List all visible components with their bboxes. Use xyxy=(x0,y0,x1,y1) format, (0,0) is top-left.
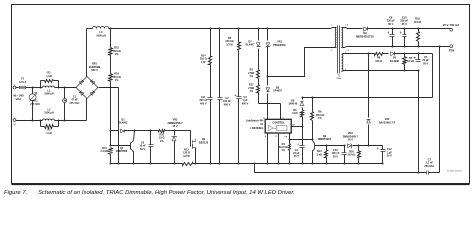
node rail-D6 xyxy=(302,97,304,99)
node VR2 at rail xyxy=(174,163,176,165)
wire detect to Q2 gate xyxy=(175,130,191,132)
varistor RV1 275 VAC xyxy=(32,88,34,121)
transistor Q3 MMBT3904 xyxy=(312,140,314,141)
node rail-R9 xyxy=(312,97,314,99)
node D1-Q1collector xyxy=(134,130,136,132)
inductor L3 1000 uH xyxy=(87,28,93,30)
node bias bottom C5 xyxy=(418,70,420,72)
terminal N xyxy=(13,119,16,122)
svg-text:LinkSwitch-PH: LinkSwitch-PH xyxy=(246,120,264,123)
wire R10 to VR2 node xyxy=(166,130,175,132)
svg-text:BAV21WS-7-F: BAV21WS-7-F xyxy=(379,122,396,125)
wire bridge minus xyxy=(99,87,119,89)
svg-text:5,6: 5,6 xyxy=(345,25,348,27)
node BP column xyxy=(302,126,304,128)
node detect-VR2 xyxy=(174,130,176,132)
node FBnet-D10 xyxy=(368,145,370,147)
svg-text:RTN: RTN xyxy=(449,48,455,52)
fuse F1 3.15 A xyxy=(20,86,26,89)
svg-text:1 W: 1 W xyxy=(201,61,206,64)
diode D10 BAV21WS-7-F xyxy=(368,54,370,118)
svg-text:1N4148: 1N4148 xyxy=(288,103,297,106)
svg-text:20 kΩ: 20 kΩ xyxy=(414,21,421,24)
svg-text:DL4002: DL4002 xyxy=(119,122,129,125)
resistor R8 150 ohm xyxy=(375,53,384,56)
svg-text:VAC: VAC xyxy=(16,97,23,101)
wire R17 to V pin xyxy=(258,93,260,104)
svg-text:CONTROL: CONTROL xyxy=(272,121,285,124)
resistor R9 100 kohm 1% xyxy=(312,98,314,112)
node R19 at RTN xyxy=(418,46,420,48)
zener VR2 ZMM5245B-7 15 V xyxy=(174,131,176,136)
node bus-divider xyxy=(110,28,112,30)
svg-text:50 V: 50 V xyxy=(333,155,338,158)
node C10 at RTN xyxy=(404,46,406,48)
capacitor C13 100 nF 50 V xyxy=(344,146,346,153)
svg-text:16 V: 16 V xyxy=(348,139,353,142)
wire bridge bottom to N xyxy=(86,99,88,121)
node L-RV1 xyxy=(32,87,34,89)
capacitor C10 330 uF 35 V xyxy=(404,29,406,35)
svg-text:Figure 7.: Figure 7. xyxy=(4,190,27,196)
node L2 right xyxy=(58,120,60,122)
wire BP pin xyxy=(292,126,303,128)
svg-text:35 V: 35 V xyxy=(388,23,393,26)
resistor R13 1 kohm xyxy=(326,146,328,151)
svg-text:3: 3 xyxy=(331,50,332,52)
node L2 left xyxy=(40,120,42,122)
node R9-Q3 xyxy=(312,139,314,141)
resistor R10 10 ohm 1% xyxy=(159,130,166,133)
svg-text:1: 1 xyxy=(331,25,332,27)
svg-text:1000 µH: 1000 µH xyxy=(96,35,106,38)
node divider-Q1base xyxy=(110,145,112,147)
svg-text:FMMT558: FMMT558 xyxy=(116,150,128,153)
resistor R1 1 kohm xyxy=(40,81,42,88)
wire bridge plus riser xyxy=(86,29,88,77)
transformer core xyxy=(337,26,339,74)
diode D9 MBRS4201T3G xyxy=(364,27,368,31)
svg-text:275 VAC: 275 VAC xyxy=(70,102,80,105)
wire L to fuse xyxy=(16,87,19,89)
capacitor C8 330 uF 35 V xyxy=(392,29,394,35)
svg-text:150 Ω: 150 Ω xyxy=(375,60,382,63)
capacitor C3 1 uF 400 V xyxy=(238,51,240,97)
wire lower rail xyxy=(254,164,256,173)
node bus-C2 xyxy=(219,28,221,30)
node out-C10 xyxy=(404,28,406,30)
resistor R3 2 Mohm 1% xyxy=(257,70,260,79)
svg-text:35 V: 35 V xyxy=(402,23,407,26)
wire bias supply rail xyxy=(303,97,433,99)
op-amp U1 LNK403EG LinkSwitch-PH xyxy=(265,119,291,133)
node Q2 source at rail xyxy=(195,163,197,165)
capacitor C6 10 nF 50 V xyxy=(150,131,152,145)
wire fuse to node xyxy=(27,87,41,89)
node out-R19 xyxy=(418,28,420,30)
mosfet Q2 BSS126 xyxy=(190,141,192,147)
terminal L xyxy=(13,86,16,89)
svg-text:N: N xyxy=(14,123,16,127)
svg-text:50 V: 50 V xyxy=(140,148,145,151)
resistor R6 3 kohm xyxy=(301,111,304,117)
svg-text:P6KE200A: P6KE200A xyxy=(273,44,286,47)
node divider-D1 xyxy=(110,130,112,132)
resistor R2 1 kohm xyxy=(40,121,42,127)
capacitor C12 1 uF 50 V xyxy=(381,149,383,151)
svg-text:PI-6067-091510: PI-6067-091510 xyxy=(447,171,463,173)
wire drain to primary xyxy=(268,48,337,77)
node bus-C3 xyxy=(238,28,240,30)
svg-text:1/2 W: 1/2 W xyxy=(183,155,190,158)
svg-text:DL4007: DL4007 xyxy=(246,44,256,47)
wire detect segment xyxy=(135,130,151,132)
svg-text:1000 µH: 1000 µH xyxy=(44,112,54,115)
node bus-C11 xyxy=(210,28,212,30)
transformer T1 bias winding xyxy=(342,55,343,72)
capacitor C4 22 uF 16 V xyxy=(302,127,304,146)
svg-text:1000 µH: 1000 µH xyxy=(44,93,54,96)
svg-text:16 V: 16 V xyxy=(294,155,299,158)
node R20 at rail xyxy=(358,163,360,165)
wire FB network xyxy=(321,145,346,147)
transformer T1 secondary xyxy=(342,28,343,48)
capacitor C1 47 nF 275 VAC xyxy=(64,88,66,99)
node C13 at rail xyxy=(344,163,346,165)
node lower rail step xyxy=(254,163,256,165)
wire FB pin xyxy=(289,133,291,140)
transformer T1 primary xyxy=(335,28,336,48)
resistor R11 2.4 Mohm xyxy=(109,148,113,155)
svg-text:3 kΩ: 3 kΩ xyxy=(292,112,297,115)
node out-C8 xyxy=(392,28,394,30)
svg-text:2.4 MΩ: 2.4 MΩ xyxy=(100,150,108,153)
wire divider to R11 node xyxy=(110,131,112,146)
resistor R15 750 kohm 1% xyxy=(109,48,113,56)
node bias bottom R7 xyxy=(404,70,406,72)
resistor R14 510 ohm 1 W xyxy=(210,29,212,57)
wire RTN rail xyxy=(347,46,450,48)
node FBnet-C13 xyxy=(344,145,346,147)
node D10 at bias wire xyxy=(368,53,370,55)
svg-text:50 V: 50 V xyxy=(387,155,392,158)
svg-text:1/2 W: 1/2 W xyxy=(226,43,233,46)
svg-text:DL4936: DL4936 xyxy=(390,60,400,63)
diode D1 DL4002 xyxy=(111,130,119,132)
diode D7 DL4007 xyxy=(258,29,260,41)
resistor R16 750 kohm 1% xyxy=(109,74,113,82)
svg-text:600 V: 600 V xyxy=(91,69,98,72)
wire S pin 1 xyxy=(267,133,269,164)
capacitor C2 100 nF 400 V xyxy=(219,29,221,98)
wire detect to R10 xyxy=(151,130,159,132)
inductor L1 1000 uH xyxy=(43,86,55,88)
wire divider upper xyxy=(110,29,112,48)
node C4 at rail xyxy=(302,163,304,165)
wire R8 to D5 xyxy=(384,53,389,55)
svg-text:1 kΩ: 1 kΩ xyxy=(46,75,51,78)
wire bias bottom xyxy=(343,70,419,72)
resistor R20 10 kohm xyxy=(358,146,360,151)
wire bias top xyxy=(343,53,375,55)
terminal output 20V 700mA xyxy=(450,28,453,31)
node C2 at rail xyxy=(219,163,221,165)
zener VR3 ZMM5245B-7 16 V xyxy=(348,144,352,148)
node FBnet-R20 xyxy=(358,145,360,147)
diode D8 UF4007 xyxy=(267,77,269,86)
wire DC bus xyxy=(111,28,331,30)
node C3 at rail xyxy=(238,163,240,165)
terminal RTN xyxy=(450,45,453,48)
capacitor C7 2.2 nF 250 VAC xyxy=(426,171,428,175)
svg-text:3.15 A: 3.15 A xyxy=(19,81,26,84)
capacitor C5 22 uF 50 V xyxy=(418,54,420,60)
wire L2 to bridge-bottom riser xyxy=(59,120,87,122)
node bus-VR1 xyxy=(267,28,269,30)
resistor R4 49.9 kohm 1% xyxy=(289,144,291,151)
node Q3 emitter at rail xyxy=(312,163,314,165)
svg-text:400 V: 400 V xyxy=(224,103,231,106)
svg-text:20 V, 700 mA: 20 V, 700 mA xyxy=(443,23,459,27)
svg-text:275 VAC: 275 VAC xyxy=(30,103,40,106)
node C1 bottom xyxy=(64,120,66,122)
svg-text:10 kΩ: 10 kΩ xyxy=(407,60,414,63)
node drain junction xyxy=(267,76,269,78)
svg-text:1 kΩ: 1 kΩ xyxy=(317,153,322,156)
resistor R7 10 kohm xyxy=(404,54,406,57)
resistor R17 2 Mohm 1% xyxy=(257,85,260,93)
wire S pin 2 xyxy=(278,133,280,164)
svg-text:7,8: 7,8 xyxy=(346,50,349,52)
wire L1 to bridge xyxy=(59,87,77,89)
zener VR1 P6KE200A xyxy=(267,29,269,41)
node Q1 emitter at rail xyxy=(133,163,135,165)
node FBnet-R13 xyxy=(326,145,328,147)
node C6 at rail xyxy=(150,163,152,165)
node FB-R4 xyxy=(289,139,291,141)
inductor L2 1000 uH xyxy=(43,119,55,121)
node L1 left xyxy=(40,87,42,89)
node S1 at rail xyxy=(267,163,269,165)
svg-text:250 VAC: 250 VAC xyxy=(424,165,434,168)
node bias-R7 xyxy=(404,53,406,55)
node detect-C6 xyxy=(150,130,152,132)
node C7 at RTN xyxy=(439,46,441,48)
svg-text:MBRS4201T3G: MBRS4201T3G xyxy=(356,36,374,39)
primary ground rail xyxy=(111,163,183,165)
node R13 at rail xyxy=(326,163,328,165)
wire divider lower xyxy=(110,82,112,131)
svg-text:400 V: 400 V xyxy=(242,102,249,105)
svg-text:Schematic of an Isolated, TRIA: Schematic of an Isolated, TRIAC Dimmable… xyxy=(38,190,295,196)
node R4 at rail xyxy=(289,163,291,165)
resistor R5 240 kohm 1/2 W xyxy=(238,29,240,43)
svg-text:UF4007: UF4007 xyxy=(273,90,283,93)
wire N line xyxy=(16,120,41,122)
bridge rectifier BR1 2KBP06M 600 V xyxy=(76,77,98,99)
svg-text:15 V: 15 V xyxy=(172,125,177,128)
svg-text:MMBT3904: MMBT3904 xyxy=(318,138,332,141)
node L1 right xyxy=(58,87,60,89)
resistor R19 20 kohm xyxy=(418,29,420,32)
node S2 at rail xyxy=(278,163,280,165)
svg-text:50 V: 50 V xyxy=(423,62,428,65)
wire bias return xyxy=(418,71,420,173)
diode D6 1N4148 xyxy=(302,98,304,100)
transistor Q1 FMMT558 xyxy=(134,131,135,141)
svg-text:1 kΩ: 1 kΩ xyxy=(46,132,51,135)
capacitor C11 220 nF 400 V xyxy=(210,65,212,98)
node C11 at rail xyxy=(210,163,212,165)
diode D5 DL4936 xyxy=(391,52,395,56)
node bias-C5 xyxy=(418,53,420,55)
node C12 at rail xyxy=(382,163,384,165)
node C8 at RTN xyxy=(392,46,394,48)
node bus-D7 xyxy=(258,28,260,30)
svg-text:10 kΩ: 10 kΩ xyxy=(348,154,355,157)
node bridge minus at rail xyxy=(118,163,120,165)
node rail R11 xyxy=(110,163,112,165)
node N-RV1 xyxy=(32,120,34,122)
schematic frame border xyxy=(12,5,470,184)
svg-text:BSS126: BSS126 xyxy=(199,141,209,144)
node C1 top xyxy=(64,87,66,89)
node bias return at lower rail xyxy=(418,172,420,174)
svg-text:400 V: 400 V xyxy=(200,102,207,105)
svg-text:LNK403EG: LNK403EG xyxy=(250,127,263,130)
wire divider middle xyxy=(110,56,112,74)
